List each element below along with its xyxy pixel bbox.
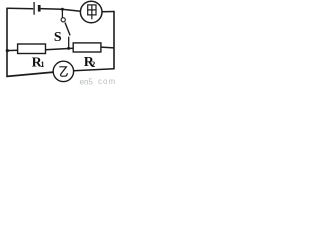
- svg-text:en5: en5: [80, 78, 94, 87]
- battery cell: long plate: [33, 2, 35, 15]
- resistor R1 box: [18, 44, 46, 54]
- middle wire right of R2: [101, 46, 114, 49]
- junction node at top wire / switch stub: [61, 8, 64, 11]
- middle wire R1 to R2: [46, 48, 74, 50]
- resistor R2 box: [73, 43, 101, 52]
- svg-text:com: com: [98, 77, 116, 86]
- battery cell: short thick plate: [38, 5, 41, 12]
- junction node at left border / middle wire: [6, 49, 9, 52]
- svg-text:S: S: [54, 30, 62, 45]
- svg-text:R2: R2: [84, 55, 96, 70]
- switch S lower stub: [68, 37, 70, 49]
- left border wire: [6, 8, 8, 78]
- wire top left (battery left lead): [7, 7, 33, 10]
- right border wire: [113, 11, 115, 70]
- jia character strokes: [88, 5, 96, 19]
- meter U2 yi circle: [53, 61, 73, 81]
- meter U1 jia circle: [80, 1, 102, 23]
- switch S lever (open): [65, 23, 70, 36]
- junction node at switch stub / middle wire: [67, 47, 70, 50]
- switch S pivot circle: [61, 18, 65, 22]
- middle wire left of R1: [7, 49, 18, 51]
- bottom wire left (to meter yi): [7, 72, 54, 76]
- bottom wire right (meter yi to corner): [74, 69, 114, 71]
- wire jia to top-right corner: [102, 11, 114, 13]
- switch S upper stub: [61, 8, 63, 18]
- wire battery to ammeter jia: [40, 9, 80, 12]
- yi character stroke: [59, 67, 67, 76]
